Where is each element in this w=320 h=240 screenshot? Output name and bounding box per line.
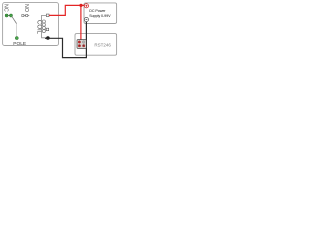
svg-text:COIL: COIL <box>36 20 42 35</box>
svg-text:Supply 0-99V: Supply 0-99V <box>89 14 111 18</box>
svg-text:RST246: RST246 <box>94 42 111 47</box>
svg-text:DC Power: DC Power <box>89 9 106 13</box>
svg-text:POLE: POLE <box>13 41 26 47</box>
svg-text:NO: NO <box>23 4 29 12</box>
svg-text:NC: NC <box>2 4 8 12</box>
